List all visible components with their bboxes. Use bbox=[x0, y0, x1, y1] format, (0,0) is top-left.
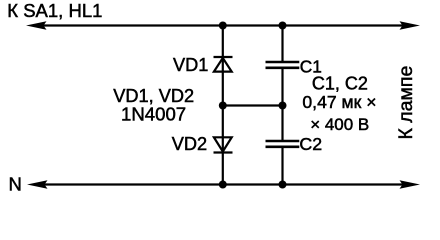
svg-text:1N4007: 1N4007 bbox=[121, 104, 186, 125]
svg-text:VD1: VD1 bbox=[173, 55, 208, 75]
svg-text:× 400 В: × 400 В bbox=[310, 115, 369, 134]
svg-text:VD2: VD2 bbox=[172, 134, 207, 154]
svg-text:N: N bbox=[9, 174, 22, 195]
svg-text:C2: C2 bbox=[299, 134, 322, 154]
svg-text:К SA1, HL1: К SA1, HL1 bbox=[7, 0, 102, 21]
svg-text:0,47 мк ×: 0,47 мк × bbox=[302, 92, 376, 112]
svg-text:К лампе: К лампе bbox=[395, 66, 417, 140]
svg-text:C1, C2: C1, C2 bbox=[312, 74, 368, 94]
